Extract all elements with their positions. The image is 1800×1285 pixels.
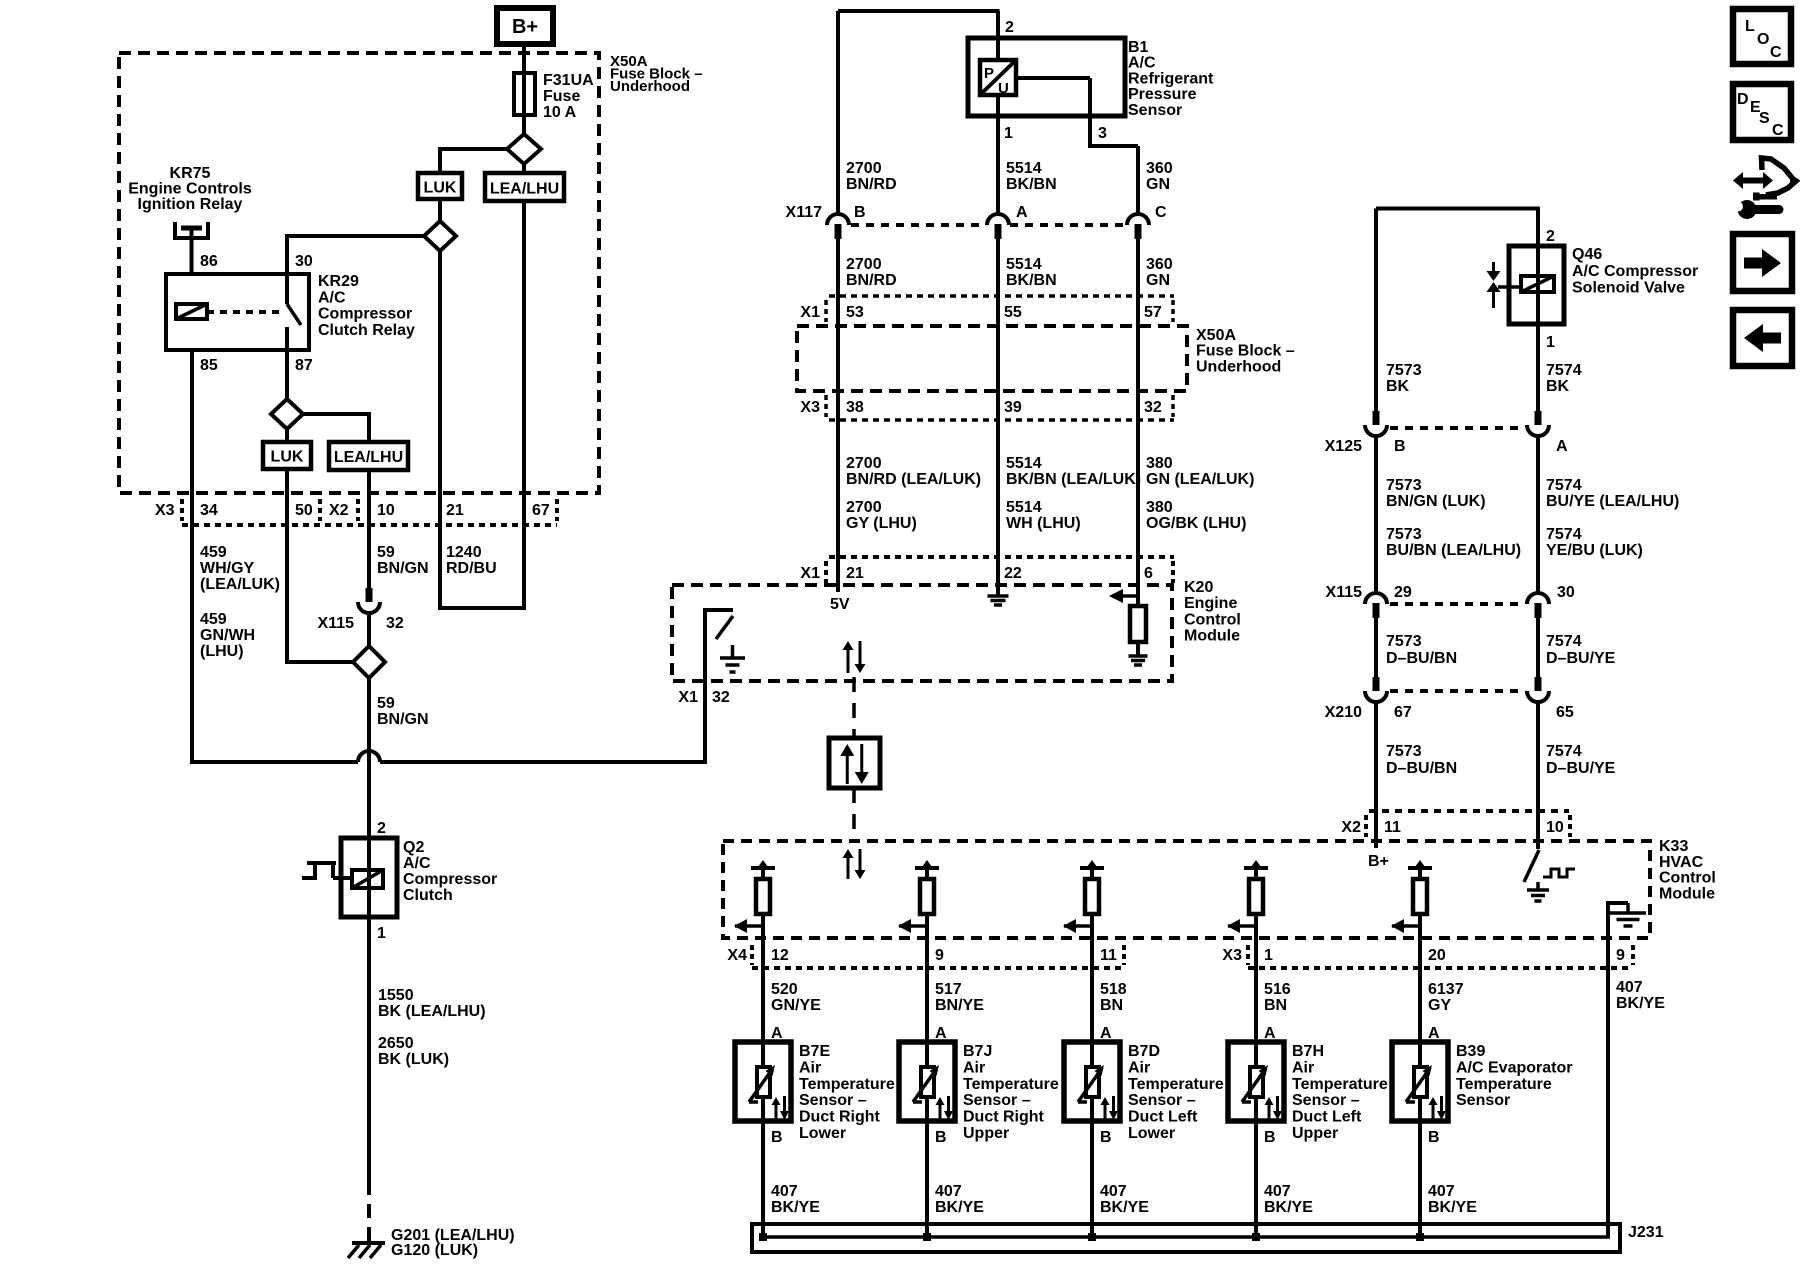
svg-text:34: 34 xyxy=(200,502,218,519)
PWM squiggle inside HVAC xyxy=(1543,869,1575,877)
wire splice 2 to relay pin 30 xyxy=(287,234,424,274)
pin 55 label xyxy=(1004,304,1022,321)
svg-text:B: B xyxy=(1100,1129,1112,1146)
wire sensor feed top link xyxy=(838,11,1000,214)
wire label 1550 BK LEA/LHU xyxy=(378,987,486,1020)
connector X115 pin 29 xyxy=(1365,593,1387,618)
svg-text:407: 407 xyxy=(935,1183,962,1200)
svg-text:Module: Module xyxy=(1184,628,1240,645)
svg-text:X50A: X50A xyxy=(1196,327,1236,344)
svg-text:Sensor: Sensor xyxy=(1128,102,1182,119)
svg-text:Duct Right: Duct Right xyxy=(799,1109,881,1126)
pin 50 label xyxy=(295,502,313,519)
svg-text:K20: K20 xyxy=(1184,579,1213,596)
svg-text:Duct Right: Duct Right xyxy=(963,1109,1045,1126)
svg-text:BU/YE (LEA/LHU): BU/YE (LEA/LHU) xyxy=(1546,493,1679,510)
svg-text:2: 2 xyxy=(377,820,386,837)
signal arrow inside HVAC (col 1) xyxy=(734,919,763,933)
sensor B7H (box) xyxy=(1228,1042,1284,1121)
pin 1 label (Q2) xyxy=(377,925,386,942)
svg-text:A/C Evaporator: A/C Evaporator xyxy=(1456,1059,1572,1076)
wire splice 3 to LEA/LHU lower box xyxy=(303,412,369,442)
pin 2 label (Q2) xyxy=(377,820,386,837)
svg-text:360: 360 xyxy=(1146,256,1173,273)
label sensor B39 xyxy=(1456,1043,1572,1109)
label J231 splice pack xyxy=(1628,1224,1664,1241)
svg-text:Clutch: Clutch xyxy=(403,887,453,904)
svg-text:1: 1 xyxy=(1264,947,1273,964)
connector X117 pin A xyxy=(987,214,1009,239)
connector X117 pin B xyxy=(827,214,849,239)
svg-text:Engine Controls: Engine Controls xyxy=(128,181,252,198)
svg-text:2: 2 xyxy=(1546,228,1555,245)
option box LUK (lower) xyxy=(263,429,311,469)
svg-text:6: 6 xyxy=(1144,565,1153,582)
pin 85 label xyxy=(200,357,218,374)
switch inside ECM (A/C relay driver) xyxy=(716,616,733,639)
svg-text:55: 55 xyxy=(1004,304,1022,321)
svg-text:Temperature: Temperature xyxy=(1456,1076,1552,1093)
wire label 407 BK/YE (col 4) xyxy=(1264,1183,1313,1216)
svg-text:Fuse: Fuse xyxy=(543,88,580,105)
connector X115 label (right) xyxy=(1326,584,1363,601)
pin 6 label (ECM) xyxy=(1144,565,1153,582)
svg-text:380: 380 xyxy=(1146,499,1173,516)
clutch Q2 coil xyxy=(352,870,383,888)
voltage supply inside HVAC (col 2) xyxy=(915,860,939,879)
svg-text:X125: X125 xyxy=(1325,438,1362,455)
wire label 7573 D-BU/BN (lower) xyxy=(1386,743,1457,777)
wire 360 GN (row2) xyxy=(1136,239,1140,606)
svg-text:BK: BK xyxy=(1546,378,1570,395)
svg-text:B: B xyxy=(1394,438,1406,455)
wire serial data (ECM to translator, dashed) xyxy=(852,677,856,738)
svg-text:X2: X2 xyxy=(329,502,349,519)
svg-text:9: 9 xyxy=(1616,947,1625,964)
svg-text:11: 11 xyxy=(1384,819,1401,836)
pin C label (X117) xyxy=(1155,204,1167,221)
svg-text:Control: Control xyxy=(1659,870,1716,887)
svg-text:GY: GY xyxy=(1428,997,1451,1014)
sensor B39 (box) xyxy=(1392,1042,1448,1121)
pin A label (B39) xyxy=(1428,1025,1440,1042)
svg-text:YE/BU (LUK): YE/BU (LUK) xyxy=(1546,542,1643,559)
wire label 2650 BK LUK xyxy=(378,1035,449,1068)
label Q2 A/C compressor clutch xyxy=(403,839,497,904)
pin 32 label (ECM) xyxy=(712,689,730,706)
svg-text:2700: 2700 xyxy=(846,455,882,472)
svg-text:Control: Control xyxy=(1184,611,1241,628)
option box LEA/LHU (upper) xyxy=(485,164,564,201)
sensor B7D (box) xyxy=(1064,1042,1120,1121)
pin 38 label xyxy=(846,399,864,416)
svg-text:WH (LHU): WH (LHU) xyxy=(1006,515,1081,532)
svg-text:65: 65 xyxy=(1556,704,1574,721)
node B+ label inside HVAC xyxy=(1368,853,1389,870)
svg-text:BU/BN (LEA/LHU): BU/BN (LEA/LHU) xyxy=(1386,542,1521,559)
connector X125 pin B xyxy=(1365,411,1387,436)
svg-text:BK/YE: BK/YE xyxy=(1616,995,1665,1012)
wire 5514 BK/BN (row2) xyxy=(996,239,1000,595)
svg-text:X115: X115 xyxy=(1326,584,1363,601)
pin A label (B7E) xyxy=(771,1025,783,1042)
svg-text:Fuse Block –: Fuse Block – xyxy=(1196,343,1295,360)
label G201 G120 xyxy=(391,1227,515,1259)
svg-text:BK/BN: BK/BN xyxy=(1006,272,1057,289)
switch inside HVAC (compressor control) xyxy=(1524,850,1539,882)
svg-text:459: 459 xyxy=(200,544,227,561)
connector X210 pin 65 xyxy=(1527,677,1549,702)
wire to Q46 pin 2 xyxy=(1536,209,1540,247)
pin 10 label (HVAC) xyxy=(1546,819,1564,836)
svg-text:J231: J231 xyxy=(1628,1224,1664,1241)
svg-text:B+: B+ xyxy=(1368,853,1389,870)
svg-text:53: 53 xyxy=(846,304,864,321)
pin 32 label (X115) xyxy=(386,615,404,632)
svg-text:(LEA/LUK): (LEA/LUK) xyxy=(200,576,280,593)
label X50A fuse block underhood (top) xyxy=(610,53,703,95)
wire label 7573 BN/GN LUK xyxy=(1386,477,1486,510)
pin B label (B7H) xyxy=(1264,1129,1276,1146)
label sensor B7H xyxy=(1292,1043,1388,1142)
wire sensor pin 1 down xyxy=(996,95,1000,214)
svg-text:WH/GY: WH/GY xyxy=(200,560,255,577)
splice diamond 3 xyxy=(271,399,303,429)
resistor inside HVAC (col 1) xyxy=(756,879,770,914)
label sensor B7D xyxy=(1128,1043,1224,1142)
svg-text:F31UA: F31UA xyxy=(543,72,594,89)
icon button LOC xyxy=(1733,9,1791,64)
wire pin 10 to connector X115 xyxy=(367,525,371,588)
wire pin 10 into HVAC xyxy=(1536,811,1540,849)
wire label 6137 GY xyxy=(1428,981,1464,1014)
svg-text:X4: X4 xyxy=(727,947,747,964)
svg-text:B39: B39 xyxy=(1456,1043,1485,1060)
svg-text:D: D xyxy=(1737,91,1749,108)
wire label 5514 BK/BN LEA/LUK xyxy=(1006,455,1141,488)
svg-text:Refrigerant: Refrigerant xyxy=(1128,70,1214,87)
svg-text:7573: 7573 xyxy=(1386,743,1422,760)
connector X115 dashed line (right) xyxy=(1390,602,1524,606)
svg-text:BN/GN: BN/GN xyxy=(377,711,429,728)
svg-text:L: L xyxy=(1745,18,1755,35)
relay KR29 A/C compressor clutch relay (box) xyxy=(166,274,309,350)
wire pin 11 into HVAC xyxy=(1374,811,1378,848)
svg-text:A: A xyxy=(1016,204,1028,221)
ground inside ECM (left) xyxy=(720,645,745,672)
svg-text:Engine: Engine xyxy=(1184,595,1237,612)
wire circuit 59 BN/GN label (upper) xyxy=(377,544,429,577)
svg-text:Upper: Upper xyxy=(1292,1125,1338,1142)
pin 3 label (B1) xyxy=(1098,125,1107,142)
connector X210 label xyxy=(1325,704,1362,721)
sensor B7E (box) xyxy=(735,1042,791,1121)
svg-text:BK: BK xyxy=(1386,378,1410,395)
svg-text:X2: X2 xyxy=(1341,819,1361,836)
svg-text:LUK: LUK xyxy=(271,449,304,466)
svg-text:Sensor –: Sensor – xyxy=(1292,1092,1360,1109)
svg-text:1240: 1240 xyxy=(446,544,482,561)
pin 11 label (HVAC bottom) xyxy=(1100,947,1117,964)
svg-text:360: 360 xyxy=(1146,160,1173,177)
svg-text:RD/BU: RD/BU xyxy=(446,560,497,577)
wire X115-30 down xyxy=(1536,618,1540,677)
svg-text:P: P xyxy=(984,65,994,82)
svg-text:GN/WH: GN/WH xyxy=(200,627,255,644)
svg-text:X210: X210 xyxy=(1325,704,1362,721)
wire label 516 BN xyxy=(1264,981,1291,1014)
wire label 7573 BK xyxy=(1386,362,1422,395)
svg-text:Temperature: Temperature xyxy=(799,1076,895,1093)
svg-text:LUK: LUK xyxy=(424,180,457,197)
svg-text:Sensor: Sensor xyxy=(1456,1092,1510,1109)
svg-text:BN: BN xyxy=(1264,997,1287,1014)
wire splice 4 down to clutch Q2 xyxy=(367,678,371,838)
svg-text:BK/YE: BK/YE xyxy=(1264,1199,1313,1216)
wire relay 85 run to ECM (with hop over) xyxy=(190,525,707,764)
svg-text:21: 21 xyxy=(846,565,864,582)
svg-text:BK/YE: BK/YE xyxy=(1100,1199,1149,1216)
svg-text:380: 380 xyxy=(1146,455,1173,472)
wire circuit 459 label (LEA/LUK) xyxy=(200,544,280,593)
wire resistor to ground xyxy=(1136,642,1140,655)
icon button forward arrow xyxy=(1733,234,1792,291)
svg-text:Underhood: Underhood xyxy=(610,78,690,95)
svg-text:Ignition Relay: Ignition Relay xyxy=(138,196,243,213)
svg-text:30: 30 xyxy=(295,253,313,270)
svg-text:Compressor: Compressor xyxy=(403,871,497,888)
wire label 7574 D-BU/YE (lower) xyxy=(1546,743,1616,777)
pin B label (B39) xyxy=(1428,1129,1440,1146)
wire X115 to splice diamond 4 xyxy=(367,613,371,646)
svg-text:2: 2 xyxy=(1005,19,1014,36)
svg-text:GN: GN xyxy=(1146,272,1170,289)
svg-text:516: 516 xyxy=(1264,981,1291,998)
svg-text:G120 (LUK): G120 (LUK) xyxy=(391,1242,478,1259)
arrows inside translator box xyxy=(840,744,869,784)
svg-text:BN/YE: BN/YE xyxy=(935,997,984,1014)
signal arrow inside HVAC (col 2) xyxy=(898,919,927,933)
wire Q2 to ground xyxy=(367,917,371,1181)
svg-text:7574: 7574 xyxy=(1546,477,1582,494)
wire Q46 feed link xyxy=(1376,209,1540,413)
svg-text:5514: 5514 xyxy=(1006,160,1042,177)
connector X210 pin 67 xyxy=(1365,677,1387,702)
pin 2 label (B1) xyxy=(1005,19,1014,36)
label KR29 A/C compressor clutch relay xyxy=(318,273,415,339)
svg-text:B7H: B7H xyxy=(1292,1043,1324,1060)
svg-text:50: 50 xyxy=(295,502,313,519)
wire label 7574 BK xyxy=(1546,362,1582,395)
wire label 7574 BU/YE LEA/LHU xyxy=(1546,477,1679,510)
solenoid valve Q46 A/C compressor (box) xyxy=(1509,246,1564,324)
wire LEA/LHU box down to pin 67 xyxy=(522,201,526,525)
relay KR29 coil-contact dashed link xyxy=(207,310,283,314)
svg-text:Solenoid Valve: Solenoid Valve xyxy=(1572,280,1685,297)
splice pack J231 (bus) xyxy=(752,1224,1620,1252)
label X50A fuse block underhood (middle) xyxy=(1196,327,1295,375)
wire label 5514 BK/BN (row2) xyxy=(1006,256,1057,289)
svg-text:BK/YE: BK/YE xyxy=(771,1199,820,1216)
svg-text:9: 9 xyxy=(935,947,944,964)
pin 20 label (HVAC bottom) xyxy=(1428,947,1446,964)
label sensor B7J xyxy=(963,1043,1059,1142)
svg-text:O: O xyxy=(1757,31,1769,48)
pin B label (X125) xyxy=(1394,438,1406,455)
svg-text:OG/BK (LHU): OG/BK (LHU) xyxy=(1146,515,1246,532)
resistor inside HVAC (col 3) xyxy=(1085,879,1099,914)
pin 32 label (fuse block) xyxy=(1144,399,1162,416)
arrows inside HVAC top xyxy=(843,849,866,879)
svg-text:57: 57 xyxy=(1144,304,1162,321)
wire ground lead (dashed) xyxy=(367,1181,371,1243)
node 5V supply label xyxy=(830,596,850,613)
wire label 360 GN (row1) xyxy=(1146,160,1173,193)
pin X1 label (ECM 32) xyxy=(678,689,698,706)
svg-text:GN (LEA/LUK): GN (LEA/LUK) xyxy=(1146,471,1254,488)
wire B7E to splice pack xyxy=(761,1121,765,1237)
wire label 7573 D-BU/BN (upper) xyxy=(1386,633,1457,667)
svg-text:A/C: A/C xyxy=(318,289,346,306)
svg-text:29: 29 xyxy=(1394,584,1412,601)
svg-text:BN/GN (LUK): BN/GN (LUK) xyxy=(1386,493,1486,510)
wire LEA/LHU lower to pin 10 xyxy=(367,470,371,525)
wire label 2700 BN/RD LEA/LUK xyxy=(846,455,981,488)
svg-text:Clutch Relay: Clutch Relay xyxy=(318,322,415,339)
wire fuse to splice diamond xyxy=(522,115,526,134)
svg-text:GN: GN xyxy=(1146,176,1170,193)
wire KR75 to relay pin 86 xyxy=(190,228,194,274)
wire splice 2 down to pin 21 xyxy=(438,251,442,525)
svg-text:BN: BN xyxy=(1100,997,1123,1014)
pin A label (B7J) xyxy=(935,1025,947,1042)
connector row X3 38/39/32 (dotted) xyxy=(826,395,1174,420)
pin 10 label xyxy=(377,502,395,519)
svg-text:10: 10 xyxy=(377,502,395,519)
serial data arrows inside ECM xyxy=(843,641,866,673)
label sensor B7E xyxy=(799,1043,895,1142)
relay KR29 coil xyxy=(176,304,207,319)
wire relay pin 85 down (circuit 459) xyxy=(190,350,194,525)
connector X3 label (fuse block) xyxy=(800,399,820,416)
svg-text:407: 407 xyxy=(1428,1183,1455,1200)
svg-text:BN/RD (LEA/LUK): BN/RD (LEA/LUK) xyxy=(846,471,981,488)
wire label 407 BK/YE (col 3) xyxy=(1100,1183,1149,1216)
wire label 360 GN (row2) xyxy=(1146,256,1173,289)
svg-text:BK/YE: BK/YE xyxy=(1428,1199,1477,1216)
svg-text:D–BU/BN: D–BU/BN xyxy=(1386,760,1457,777)
wire X210-67 down xyxy=(1374,702,1378,811)
svg-text:407: 407 xyxy=(1100,1183,1127,1200)
svg-text:86: 86 xyxy=(200,253,218,270)
connector X1 label (ECM) xyxy=(800,565,820,582)
pin 53 label xyxy=(846,304,864,321)
svg-text:10: 10 xyxy=(1546,819,1564,836)
svg-text:5514: 5514 xyxy=(1006,455,1042,472)
svg-text:KR75: KR75 xyxy=(170,165,211,182)
svg-text:Compressor: Compressor xyxy=(318,306,412,323)
connector X2 label (HVAC) xyxy=(1341,819,1361,836)
svg-text:2700: 2700 xyxy=(846,499,882,516)
svg-text:X3: X3 xyxy=(1222,947,1242,964)
pin 86 label xyxy=(200,253,218,270)
svg-text:518: 518 xyxy=(1100,981,1127,998)
svg-text:Upper: Upper xyxy=(963,1125,1009,1142)
wire label 7574 D-BU/YE (upper) xyxy=(1546,633,1616,667)
connector row X4/X3 HVAC (dotted) xyxy=(752,945,1633,968)
svg-text:7574: 7574 xyxy=(1546,526,1582,543)
svg-text:1: 1 xyxy=(377,925,386,942)
svg-text:Sensor –: Sensor – xyxy=(799,1092,867,1109)
svg-text:22: 22 xyxy=(1004,565,1022,582)
svg-text:Temperature: Temperature xyxy=(1292,1076,1388,1093)
svg-text:X1: X1 xyxy=(800,565,820,582)
pin 9 label (HVAC right) xyxy=(1616,947,1625,964)
svg-text:B1: B1 xyxy=(1128,39,1149,56)
svg-text:GY (LHU): GY (LHU) xyxy=(846,515,917,532)
svg-text:7574: 7574 xyxy=(1546,362,1582,379)
svg-text:A: A xyxy=(1556,438,1568,455)
svg-text:12: 12 xyxy=(771,947,789,964)
svg-text:X1: X1 xyxy=(678,689,698,706)
wire B7H to splice pack xyxy=(1254,1121,1258,1237)
voltage supply inside HVAC (col 3) xyxy=(1080,860,1104,879)
pin 12 label (HVAC bottom) xyxy=(771,947,789,964)
label relay KR75 engine controls ignition relay xyxy=(128,165,252,213)
svg-text:BK (LEA/LHU): BK (LEA/LHU) xyxy=(378,1003,486,1020)
svg-text:1: 1 xyxy=(1546,334,1555,351)
wire label 407 BK/YE (pin 9) xyxy=(1616,979,1665,1012)
wire serial data (translator to HVAC, dashed) xyxy=(852,788,856,841)
pin 1 label (HVAC bottom) xyxy=(1264,947,1273,964)
svg-text:39: 39 xyxy=(1004,399,1022,416)
module K20 engine control module (dashed box) xyxy=(672,585,1172,681)
wire B39 to splice pack xyxy=(1418,1121,1422,1237)
svg-text:B: B xyxy=(1264,1129,1276,1146)
svg-text:Temperature: Temperature xyxy=(1128,1076,1224,1093)
svg-text:B: B xyxy=(771,1129,783,1146)
wire label 7574 YE/BU LUK xyxy=(1546,526,1643,559)
splice diamond (fuse output) xyxy=(507,134,541,164)
connector row X2 HVAC (dotted) xyxy=(1366,811,1570,837)
svg-text:X3: X3 xyxy=(800,399,820,416)
wire pin X1-32 inside ECM xyxy=(703,610,733,681)
serial data translator box xyxy=(829,738,880,788)
svg-text:520: 520 xyxy=(771,981,798,998)
wire sensor signal (col 3) xyxy=(1090,914,1094,1042)
svg-text:B7D: B7D xyxy=(1128,1043,1160,1060)
icon button DESC xyxy=(1733,84,1791,140)
wire circuit 459 label (LHU) xyxy=(200,611,255,660)
pin 29 label xyxy=(1394,584,1412,601)
svg-text:59: 59 xyxy=(377,695,395,712)
label K33 HVAC control module xyxy=(1659,838,1716,902)
pin 9 label (HVAC bottom) xyxy=(935,947,944,964)
svg-text:GN/YE: GN/YE xyxy=(771,997,821,1014)
svg-text:X1: X1 xyxy=(800,304,820,321)
svg-text:2650: 2650 xyxy=(378,1035,414,1052)
svg-text:BN/RD: BN/RD xyxy=(846,176,897,193)
svg-text:6137: 6137 xyxy=(1428,981,1464,998)
svg-text:C: C xyxy=(1770,44,1782,61)
wire label 7573 BU/BN LEA/LHU xyxy=(1386,526,1521,559)
module K33 HVAC control module (dashed box) xyxy=(723,841,1650,938)
svg-text:Underhood: Underhood xyxy=(1196,358,1281,375)
ground inside ECM (pin 6) xyxy=(1129,656,1148,665)
wire sensor pin 3 jog xyxy=(1016,78,1138,214)
svg-text:Sensor –: Sensor – xyxy=(1128,1092,1196,1109)
wire sensor pin 2 xyxy=(996,11,1000,60)
